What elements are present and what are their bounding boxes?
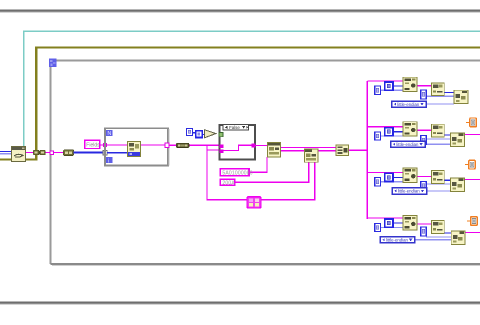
- svg-text:i: i: [108, 158, 109, 164]
- svg-text:N: N: [107, 131, 111, 137]
- svg-text:Fields: Fields: [86, 142, 100, 148]
- svg-text:little-endian: little-endian: [398, 189, 421, 194]
- svg-text:little-endian: little-endian: [397, 102, 420, 107]
- svg-text:little-endian: little-endian: [396, 142, 419, 147]
- svg-text:little-endian: little-endian: [386, 238, 409, 243]
- svg-text:200A: 200A: [222, 181, 235, 187]
- svg-text:5A01000080: 5A01000080: [222, 171, 252, 177]
- svg-text:False: False: [229, 125, 240, 130]
